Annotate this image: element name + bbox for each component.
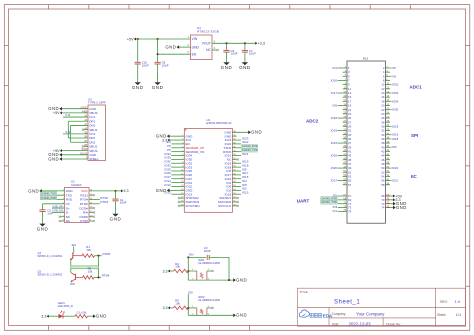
net label VN: [167, 148, 171, 152]
bus label ADC2: [306, 118, 319, 123]
wire M2 pin 40: [390, 146, 392, 148]
wire M2 pin 55: [338, 180, 343, 182]
svg-text:3.3: 3.3: [123, 189, 128, 193]
wire M2 pin 1: [338, 67, 343, 69]
ESP32 module U1 ESP32-WROOM-32: [184, 118, 232, 212]
net label IO5: [332, 104, 337, 108]
net label DTR#: [102, 252, 110, 256]
net label IO0 at Q2 emitter: [70, 282, 75, 286]
svg-text:VOUT: VOUT: [202, 42, 211, 46]
wire M2 pin 13: [338, 92, 343, 94]
svg-text:GND: GND: [192, 45, 200, 49]
pin number 4 NC: [214, 46, 216, 50]
wire U1 SWP/SD3 stub: [178, 201, 184, 203]
wire M2 pin 36: [390, 138, 392, 140]
pin number 5 VOUT: [214, 39, 216, 43]
ground flag at U2 GND pin: [28, 188, 42, 193]
svg-text:+3.3: +3.3: [258, 42, 265, 46]
net label CH340_TXD highlighted: [241, 148, 257, 152]
wire M2 pin 30: [390, 125, 392, 127]
ground symbol under C8: [152, 82, 164, 90]
highlighted crossing wires RTS/DTR: [71, 266, 99, 269]
net label IO22: [392, 166, 399, 170]
transistor Q1 S8050: [38, 251, 83, 260]
resistor R2 10k: [83, 267, 95, 280]
svg-text:Sheet:: Sheet:: [437, 313, 446, 317]
svg-text:USB_DN: USB_DN: [52, 209, 63, 213]
pin number 3 EN: [187, 50, 189, 54]
wire M2 pin 18: [390, 100, 392, 102]
wire M2 pin 67: [338, 195, 343, 197]
wire 3.3 to LED1: [49, 315, 59, 317]
svg-text:GND: GND: [96, 314, 107, 319]
wire DTR junction down: [98, 256, 100, 266]
svg-text:IO1: IO1: [333, 209, 338, 213]
wire EN tap to U4 EN pin: [158, 53, 191, 55]
wire DN1 to DN2: [70, 125, 72, 142]
net label IO32: [392, 83, 399, 87]
wire M2 pin 14: [390, 92, 392, 94]
net label EN at SW1: [189, 253, 193, 257]
wire U3 DN1 pin: [71, 124, 88, 126]
net label CH340_RXD highlighted: [241, 144, 258, 148]
wire U2 NC stub 2: [59, 220, 65, 222]
node junction R4 SW1 pin1: [187, 270, 189, 272]
wire U1 IO14 pin: [171, 182, 184, 184]
net label EN: [167, 140, 171, 144]
wire M2 pin 22: [390, 109, 392, 111]
net label IO35: [392, 108, 399, 112]
svg-text:ADC2: ADC2: [306, 118, 319, 123]
wire U3 CC2 pin: [63, 133, 88, 135]
wire U1 IO35 pin: [171, 158, 184, 160]
net label IO23: [331, 141, 338, 145]
svg-text:SCS/CMD: SCS/CMD: [186, 204, 201, 208]
node junction R5 SW2 pin1: [187, 307, 189, 309]
svg-text:10UF: 10UF: [231, 52, 238, 56]
net label IO0 at SW2: [188, 290, 193, 294]
svg-text:Your Company: Your Company: [356, 312, 385, 317]
wire R4 junction to SW1 pin 1: [188, 270, 197, 272]
wire U2 TXD pin: [41, 194, 65, 196]
resistor R4 10k: [174, 262, 189, 273]
wire U3 SBU1 stub: [82, 129, 88, 131]
voltage regulator U4 RT9013-33GB: [191, 26, 220, 60]
net label IO0: [242, 183, 247, 187]
value label 5.1k at CC2: [66, 131, 71, 134]
wire M2 pin 7: [338, 80, 343, 82]
capacitor C9 10UF: [223, 43, 237, 62]
wire U1 IO22 pin: [232, 143, 241, 145]
bus label SPI: [411, 133, 418, 138]
wire M2 pin 68 to +5V: [386, 195, 394, 197]
net label IO26: [164, 171, 171, 175]
svg-text:DTR#: DTR#: [102, 252, 110, 256]
capacitor C8 10UF: [155, 39, 169, 82]
power net 3.3 flag at R5: [162, 306, 170, 310]
wire 3.3 to R5: [170, 307, 174, 309]
wire U1 SDI/SD1 stub: [232, 197, 238, 199]
svg-text:IO12: IO12: [164, 183, 171, 187]
wire 3.3 to R4: [170, 270, 174, 272]
svg-text:GND: GND: [37, 226, 49, 231]
svg-text:REV:: REV:: [440, 300, 447, 304]
wire M2 pin 56: [390, 180, 392, 182]
svg-text:IO0: IO0: [188, 290, 193, 294]
wire M2 pin 37: [338, 142, 343, 144]
svg-text:ADC1: ADC1: [410, 85, 423, 90]
net label IO23: [242, 136, 249, 140]
svg-text:4: 4: [214, 46, 216, 50]
svg-text:IO5: IO5: [392, 145, 397, 149]
svg-text:Drawn By:: Drawn By:: [386, 322, 401, 326]
net label IO19: [331, 129, 338, 133]
wire M2 pin 31: [338, 130, 343, 132]
svg-text:EN: EN: [72, 243, 76, 247]
svg-text:TITLE:: TITLE:: [300, 290, 309, 294]
svg-text:GND: GND: [28, 188, 39, 193]
wire U1 TXD0 pin: [232, 147, 241, 149]
wire U1 SCS/CMD stub: [178, 205, 184, 207]
svg-text:GND: GND: [251, 130, 262, 135]
USB-UART bridge U2 CH340C: [65, 180, 90, 224]
wire EN rail down to SW1 pin1: [187, 257, 189, 280]
ground symbol under C1: [110, 214, 122, 222]
svg-text:S8050-D_C164892: S8050-D_C164892: [38, 273, 63, 277]
wire U1 IO17 pin: [232, 174, 241, 176]
svg-text:USB_DP: USB_DP: [52, 204, 63, 208]
svg-text:74: 74: [381, 206, 385, 210]
wire U1 3V3 pin: [170, 139, 185, 141]
wire M2 pin 2: [390, 67, 392, 69]
wire U1 GND pin 15: [170, 189, 185, 191]
svg-text:CTS#: CTS#: [80, 219, 88, 223]
svg-text:1: 1: [187, 35, 189, 39]
wire M2 pin 71: [338, 203, 343, 205]
svg-text:IO17: IO17: [331, 91, 338, 95]
svg-text:Date:: Date:: [332, 322, 340, 326]
power net 3.3 flag at U2 VCC: [121, 189, 129, 193]
net label IO1: [333, 209, 338, 213]
wire U3 CC1 pin: [63, 116, 88, 118]
svg-text:1/1: 1/1: [456, 313, 461, 317]
net label DTR#: [100, 200, 108, 204]
wire right rail down SW1: [228, 257, 230, 280]
net label IO14: [164, 179, 171, 183]
svg-text:5.1k: 5.1k: [66, 114, 71, 117]
net label IO27: [164, 175, 171, 179]
wire U1 IO26 pin: [171, 174, 184, 176]
wire U1 GND pin 38: [232, 131, 248, 133]
U2 right pin numbers: [90, 190, 93, 222]
wire U1 GND pin 39 stub: [232, 135, 236, 137]
svg-text:UART: UART: [297, 199, 310, 204]
wire M2 pin 74 to GND: [386, 207, 394, 209]
svg-text:IO4: IO4: [332, 66, 337, 70]
net label IO18: [331, 116, 338, 120]
svg-text:IO0: IO0: [70, 282, 75, 286]
node junction C1 tap: [114, 190, 116, 192]
SW2 pin numbers: [192, 306, 210, 316]
pin number 1 VIN: [187, 35, 189, 39]
capacitor C5 1UF: [39, 204, 53, 224]
net label VN: [392, 74, 396, 78]
U3 pin numbers: [80, 106, 88, 159]
wire U1 EN pin: [171, 143, 184, 145]
net label IO33: [392, 91, 399, 95]
wire U2 RXD pin: [41, 199, 65, 201]
net label CH340_RXD highlighted: [40, 196, 57, 200]
svg-text:75: 75: [348, 209, 352, 213]
title text Sheet_1: [300, 290, 361, 306]
svg-text:IO26: IO26: [331, 166, 338, 170]
svg-text:GND: GND: [48, 156, 59, 161]
date text: [332, 322, 401, 327]
net label IO17: [242, 171, 249, 175]
svg-text:0.1-0.5k: 0.1-0.5k: [77, 310, 87, 314]
wire ground flag to U4 GND pin: [179, 46, 190, 48]
wire M2 pin 70 to 3.3: [386, 199, 394, 201]
svg-text:GND: GND: [221, 65, 233, 70]
pin number 2 GND: [187, 43, 189, 47]
svg-text:10UF: 10UF: [162, 63, 169, 67]
net label IO34: [392, 99, 399, 103]
svg-text:VN: VN: [392, 74, 396, 78]
net label IO25: [331, 154, 338, 158]
wire U3 GND pin: [62, 108, 88, 110]
wire U1 SDO/SD0 stub: [232, 201, 238, 203]
net label CH340_TXD highlighted: [321, 200, 338, 204]
wire Q2 emitter to IO0: [70, 281, 72, 284]
ground flag at SW1: [233, 278, 247, 283]
wire U3 VBUS 2 pin: [62, 150, 88, 152]
wire U1 IO16 pin: [232, 178, 241, 180]
net label IO15: [242, 191, 249, 195]
net label USB_DP: [52, 204, 63, 208]
net label CH340_RXD highlighted: [321, 196, 338, 200]
ground flag at M2 pin 74: [393, 205, 407, 210]
power net 3.3 flag at U1 3V3: [162, 138, 170, 142]
wire U1 IO23 pin: [232, 139, 241, 141]
transistor Q2 S8050: [38, 269, 83, 282]
wire U1 IO4 pin: [232, 182, 241, 184]
wire U1 RXD0 pin: [232, 151, 241, 153]
wire U1 NC stub: [232, 158, 238, 160]
svg-text:RT9013-33GB: RT9013-33GB: [197, 30, 219, 34]
ground flag at U3 GND pin B1A12: [48, 152, 62, 157]
wire M2 pin 73: [338, 207, 343, 209]
U2 left pin numbers: [63, 190, 65, 222]
node junction EN wire: [187, 256, 189, 258]
wire M2 pin 34: [390, 134, 392, 136]
ground flag at U1 GND pin 1: [156, 134, 170, 139]
svg-text:SCK/CLK: SCK/CLK: [218, 204, 231, 208]
svg-text:S8050-D_C164892: S8050-D_C164892: [38, 254, 63, 258]
wire U2 D+ pin: [52, 207, 65, 209]
net label IO5: [242, 167, 247, 171]
svg-text:IO19: IO19: [331, 129, 338, 133]
capacitor C7 10UF: [242, 43, 256, 62]
svg-text:10UF: 10UF: [204, 249, 211, 253]
net label IO19: [392, 133, 399, 137]
wire U1 SENSOR_VN pin: [171, 151, 184, 153]
svg-text:57: 57: [348, 183, 352, 187]
svg-text:Company:: Company:: [332, 312, 347, 316]
svg-text:SPI: SPI: [411, 133, 418, 138]
net label IO17: [331, 91, 338, 95]
svg-text:10k: 10k: [86, 248, 91, 252]
svg-text:GND: GND: [239, 65, 251, 70]
wire +5V rail to U4 VIN: [136, 38, 191, 40]
power net +5V flag at U3 VBUS: [53, 111, 62, 115]
wire U1 IO12 pin: [171, 185, 184, 187]
svg-text:M.2: M.2: [363, 57, 368, 61]
wire M2 pin 72 to GND: [386, 203, 394, 205]
svg-text:GND: GND: [156, 188, 167, 193]
node junction C8 on +5V rail: [157, 38, 159, 40]
M.2 edge connector M2: [347, 57, 386, 224]
wire R3 to GND: [88, 315, 94, 317]
node junction C10 on +5V rail: [137, 38, 139, 40]
wire U2 RTS# pin: [89, 199, 100, 201]
rev text: [440, 300, 460, 304]
ground flag at U3 GND pin A1B12: [48, 106, 62, 111]
wire RTS junction up: [98, 269, 100, 278]
wire U1 IO5 pin: [232, 170, 241, 172]
wire U2 CTS# stub: [89, 220, 95, 222]
svg-text:10k: 10k: [88, 269, 93, 273]
wire IO0 down to SW2 pin1: [187, 294, 189, 315]
svg-text:10UF: 10UF: [142, 63, 149, 67]
svg-text:IO27: IO27: [331, 179, 338, 183]
company text: [332, 312, 386, 317]
wire U1 IO19 pin: [232, 162, 241, 164]
wire U1 IO25 pin: [171, 170, 184, 172]
wire M2 pin 43: [338, 155, 343, 157]
capacitor C1 10UF: [112, 191, 127, 214]
wire C3 to right rail: [209, 256, 229, 258]
svg-text:GND: GND: [110, 217, 122, 222]
net label IO25: [164, 167, 171, 171]
net label IO27: [331, 179, 338, 183]
capacitor C3 10UF: [204, 246, 211, 260]
wire U3 VBUS pin: [62, 112, 88, 114]
svg-text:DTR#: DTR#: [100, 200, 108, 204]
net label RTS#: [100, 196, 108, 200]
svg-text:SHELL: SHELL: [89, 157, 99, 161]
wire SW1 bottom to GND: [188, 279, 233, 281]
svg-text:EN: EN: [189, 253, 193, 257]
svg-text:3.3: 3.3: [162, 269, 167, 273]
svg-text:58: 58: [381, 183, 385, 187]
svg-text:GND: GND: [165, 45, 176, 50]
wire U2 R232 stub: [89, 194, 95, 196]
svg-text:GND: GND: [152, 85, 164, 90]
switch SW1 K2-1808DN-A4SW: [197, 258, 221, 280]
net label RTS#: [102, 274, 110, 278]
node junction SW1 bottom right: [228, 279, 230, 281]
net label IO5: [392, 145, 397, 149]
svg-text:+5V: +5V: [127, 37, 134, 41]
svg-text:ESP32-WROOM-32: ESP32-WROOM-32: [206, 121, 231, 125]
svg-text:IO32: IO32: [392, 83, 399, 87]
svg-text:IO34: IO34: [392, 99, 399, 103]
sheet text: [437, 313, 461, 317]
net label IO32: [164, 160, 171, 164]
net label IO26: [331, 166, 338, 170]
wire U2 DCD# stub: [89, 207, 95, 209]
wire U1 IO15 pin: [232, 193, 241, 195]
svg-text:VIN: VIN: [192, 37, 198, 41]
svg-text:CH340_TXD: CH340_TXD: [321, 200, 337, 204]
svg-text:GND: GND: [236, 278, 247, 283]
wire U1 IO34 pin: [171, 155, 184, 157]
net label VP: [167, 144, 171, 148]
net label IO18: [242, 163, 249, 167]
net label IO13: [164, 191, 171, 195]
net label IO23: [392, 124, 399, 128]
M2 right pin stubs and numbers: [381, 66, 390, 210]
wire U1 SCK/CLK stub: [232, 205, 238, 207]
svg-text:3: 3: [187, 50, 189, 54]
net label EN at Q1 collector: [72, 243, 76, 247]
capacitor C10 10UF: [135, 39, 149, 82]
wire U3 DP2 pin: [68, 137, 88, 139]
power net +5V flag at U3 VBUS 2: [53, 149, 62, 153]
no-connect mark on U4 NC: [217, 49, 219, 51]
wire U2 RI# stub: [89, 211, 95, 213]
svg-text:CH340_RXD: CH340_RXD: [41, 196, 57, 200]
power net +5V flag at M2: [393, 194, 403, 198]
ground symbol under C5: [37, 224, 49, 232]
svg-text:10k: 10k: [175, 265, 180, 269]
wire U3 SBU2 stub: [82, 145, 88, 147]
svg-text:5: 5: [214, 39, 216, 43]
wire U1 SENSOR_VP pin: [171, 147, 184, 149]
wire M2 pin 69: [338, 199, 343, 201]
svg-text:Sheet_1: Sheet_1: [334, 299, 360, 305]
wire U2 NC stub 1: [59, 216, 65, 218]
net label IO33: [164, 163, 171, 167]
wire U2 DTR# pin: [89, 203, 100, 205]
bus label UART: [297, 199, 310, 204]
bus label IIC: [411, 174, 418, 179]
svg-text:IO22: IO22: [392, 166, 399, 170]
net label IO4: [242, 179, 247, 183]
wire SW2 pin 2 stub: [207, 307, 214, 309]
svg-text:2022-12-03: 2022-12-03: [349, 322, 372, 327]
wire U2 V3 pin to C5: [43, 203, 65, 205]
value label 5.1k at CC1: [66, 114, 71, 117]
net label USB_DN: [52, 209, 63, 213]
svg-text:IIC: IIC: [411, 174, 418, 179]
wire U1 IO18 pin: [232, 166, 241, 168]
svg-text:GND: GND: [396, 205, 407, 210]
wire EN node to C3: [188, 256, 206, 258]
wire U1 IO33 pin: [171, 166, 184, 168]
svg-text:CH340_TXD: CH340_TXD: [41, 192, 56, 196]
svg-text:3.3: 3.3: [41, 315, 46, 319]
resistor R3 0.1-0.5k: [75, 310, 88, 318]
svg-text:10UF: 10UF: [249, 52, 256, 56]
svg-text:GND: GND: [132, 85, 144, 90]
net label IO21: [392, 179, 399, 183]
power net 3.3 flag at M2: [393, 198, 401, 202]
ground flag at LED circuit: [93, 314, 107, 319]
wire U3 DN2 pin: [71, 141, 88, 143]
svg-text:+5V: +5V: [53, 111, 60, 115]
wire U2 DSR# stub: [89, 216, 95, 218]
